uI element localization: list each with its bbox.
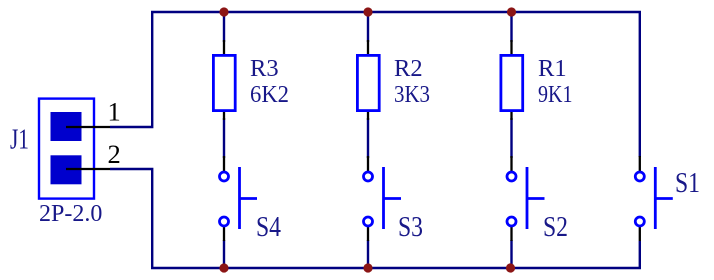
svg-text:9K1: 9K1 [538, 81, 573, 108]
resistor R1 [501, 40, 523, 120]
pin 1 of J1 [66, 126, 110, 128]
wire column R2 middle [367, 118, 369, 158]
pin bottom S3 [367, 227, 369, 241]
svg-text:J1: J1 [10, 124, 29, 156]
svg-text:1: 1 [108, 97, 121, 127]
junction dot bottom S2 [506, 263, 515, 272]
wire column R1 middle [510, 118, 512, 158]
pin bottom S2 [510, 227, 512, 241]
junction dot top R2 [363, 7, 372, 16]
svg-text:R1: R1 [538, 55, 567, 82]
switch S3 [364, 156, 402, 241]
svg-text:R3: R3 [250, 55, 279, 82]
svg-text:S1: S1 [675, 167, 700, 199]
switch S2 [507, 156, 545, 241]
junction dot top R3 [219, 7, 228, 16]
wire right vertical bottom from S1 [639, 241, 641, 268]
svg-text:S4: S4 [256, 211, 281, 243]
switch S4 [220, 156, 258, 241]
resistor R2 [357, 40, 379, 120]
pin bottom S4 [223, 227, 225, 241]
resistor R3 [213, 40, 235, 120]
svg-text:S2: S2 [543, 211, 568, 243]
junction dot bottom S4 [219, 263, 228, 272]
svg-text:6K2: 6K2 [250, 81, 289, 108]
wire column R2 top [367, 12, 369, 42]
wire column S4 bottom [223, 240, 225, 268]
pin top S3 [367, 156, 369, 171]
pin top R3 [223, 40, 225, 55]
svg-text:2: 2 [108, 139, 121, 169]
pin bottom R3 [223, 111, 225, 120]
pin top S1 [639, 156, 641, 171]
junction dot bottom S3 [363, 263, 372, 272]
switch S1 [635, 156, 673, 241]
pin top R2 [367, 40, 369, 55]
junction dot top R1 [507, 7, 516, 16]
wire bottom rail [151, 267, 641, 269]
connector J1 [39, 99, 110, 199]
wire top rail [151, 11, 641, 13]
wire column R3 middle [223, 118, 225, 158]
pin bottom R2 [367, 111, 369, 120]
wire right vertical top to S1 [639, 12, 641, 157]
svg-text:S3: S3 [398, 211, 423, 243]
wire left vertical to pin 1 of J1 [110, 12, 152, 127]
wire column R3 top [223, 12, 225, 42]
svg-text:R2: R2 [394, 55, 423, 82]
wire column S3 bottom [367, 240, 369, 268]
pin 2 of J1 [66, 168, 110, 170]
pin top R1 [510, 40, 512, 55]
pin bottom R1 [510, 111, 512, 120]
pin top S2 [510, 156, 512, 171]
pin bottom S1 [639, 227, 641, 241]
wire column R1 top [510, 12, 512, 42]
wire column S2 bottom [510, 240, 512, 268]
svg-text:2P-2.0: 2P-2.0 [39, 201, 102, 227]
svg-text:3K3: 3K3 [394, 81, 430, 108]
pin top S4 [223, 156, 225, 171]
wire left vertical to pin 2 of J1 [110, 169, 152, 268]
